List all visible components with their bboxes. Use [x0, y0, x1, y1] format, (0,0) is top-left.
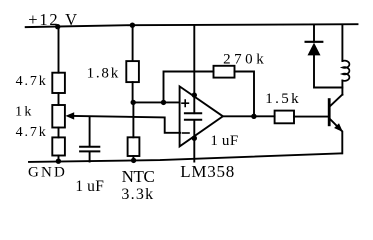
svg-text:GND: GND — [28, 164, 65, 180]
svg-text:1 uF: 1 uF — [75, 178, 104, 195]
svg-text:1.5k: 1.5k — [265, 91, 299, 107]
svg-text:LM358: LM358 — [180, 162, 234, 181]
svg-text:1 uF: 1 uF — [210, 133, 238, 149]
svg-text:3.3k: 3.3k — [121, 186, 153, 203]
svg-text:4.7k: 4.7k — [16, 74, 46, 89]
svg-text:1 k: 1 k — [15, 105, 31, 120]
svg-text:4.7k: 4.7k — [16, 125, 46, 140]
svg-text:+12 V: +12 V — [28, 10, 77, 29]
svg-text:1.8k: 1.8k — [87, 66, 119, 82]
svg-text:NTC: NTC — [122, 167, 155, 186]
